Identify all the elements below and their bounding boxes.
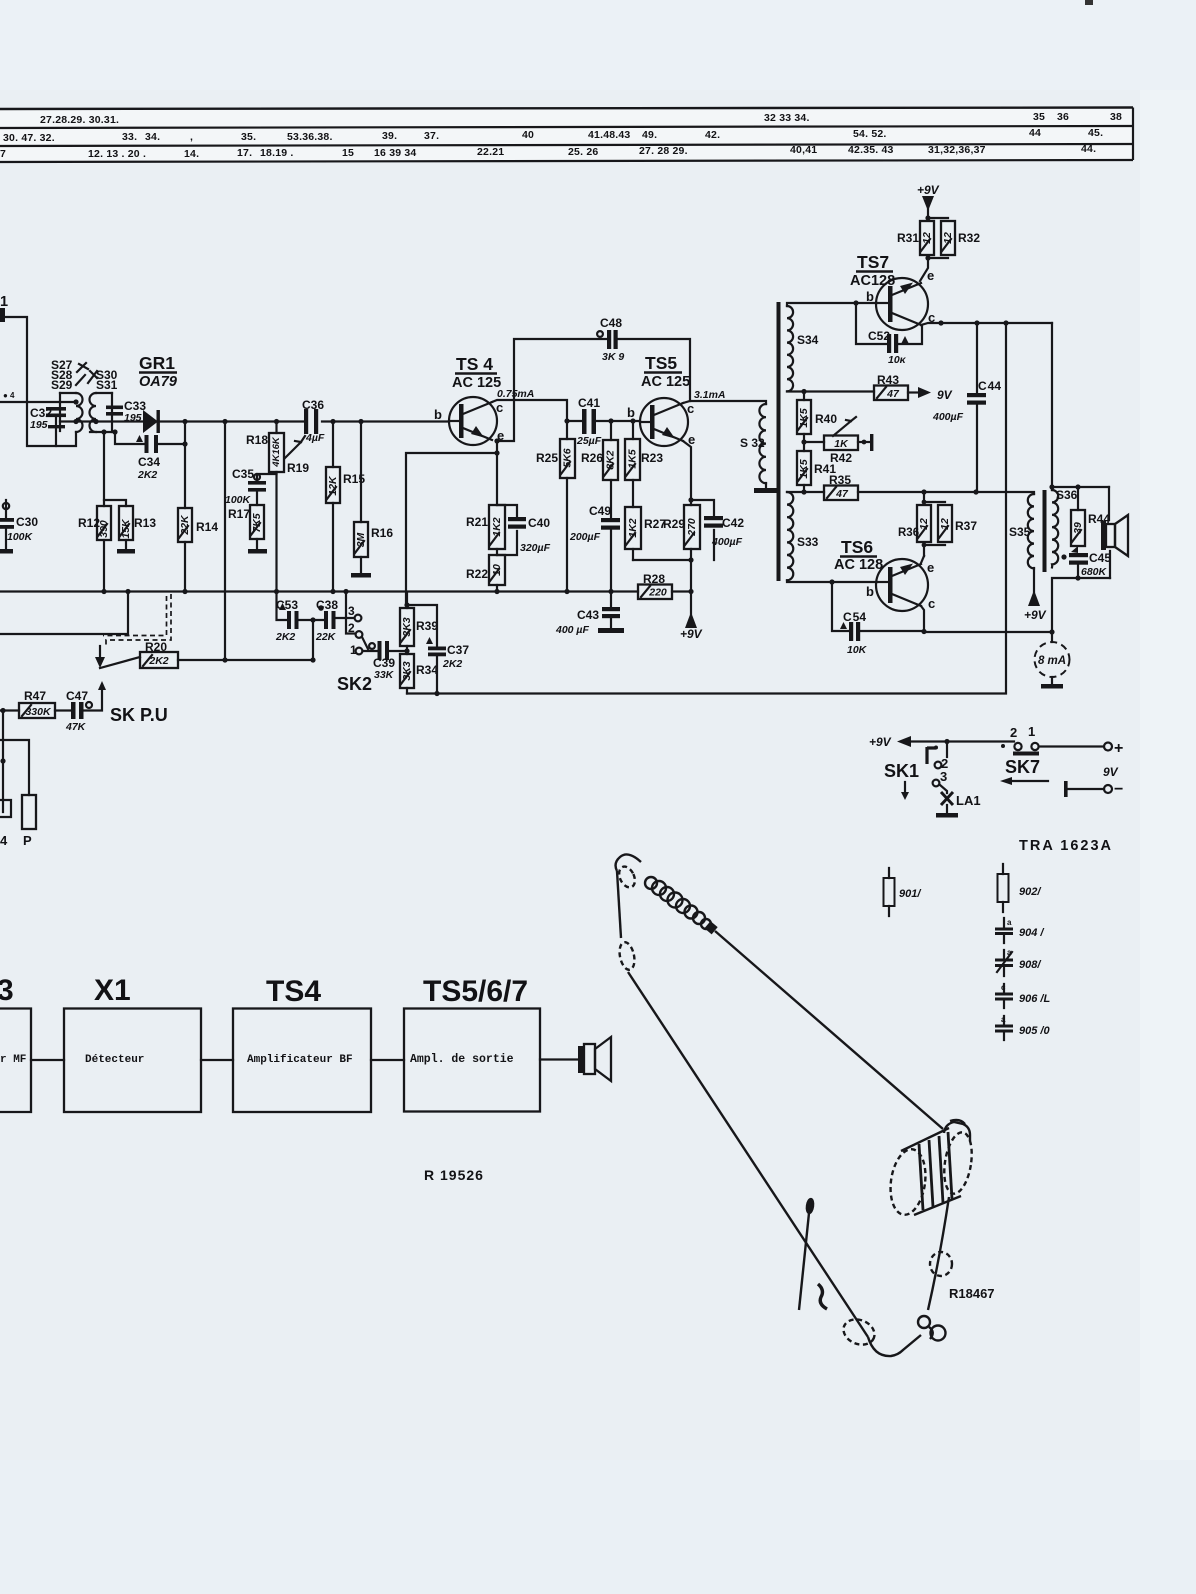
svg-text:3.1mA: 3.1mA <box>694 389 726 401</box>
capacitor C35 <box>257 474 277 480</box>
svg-text:220: 220 <box>648 587 667 599</box>
svg-text:+9V: +9V <box>680 627 703 641</box>
svg-text:7K5: 7K5 <box>251 513 263 532</box>
bottom corner pulley <box>840 1315 879 1349</box>
capacitor C30 <box>5 500 7 518</box>
legend resistor 902 <box>1002 864 1004 912</box>
wire C48 feedback loop <box>497 339 690 441</box>
switch SK2 contacts <box>336 617 354 619</box>
svg-text:C34: C34 <box>138 455 160 469</box>
resistor R21 <box>496 453 498 505</box>
svg-text:R12: R12 <box>78 516 100 530</box>
svg-text:12. 13 . 20 .: 12. 13 . 20 . <box>88 148 146 160</box>
svg-text:4: 4 <box>0 833 8 848</box>
svg-text:R34: R34 <box>416 663 438 677</box>
resistor R23 <box>632 421 634 439</box>
svg-text:R21: R21 <box>466 515 488 529</box>
wire S34 bottom to R43 <box>787 390 874 392</box>
legend capacitor 906/L <box>1003 984 1005 1008</box>
transistor TS6 <box>866 559 935 611</box>
svg-text:400 µF: 400 µF <box>555 624 589 636</box>
svg-text:C47: C47 <box>66 689 88 703</box>
switch marks S28/S29 arrows <box>76 363 88 385</box>
svg-text:1K5: 1K5 <box>798 408 810 427</box>
svg-text:R18: R18 <box>246 433 268 447</box>
svg-text:SK7: SK7 <box>1005 757 1040 777</box>
svg-text:r MF: r MF <box>0 1054 26 1066</box>
wire block links <box>31 1058 578 1061</box>
ground under R13 <box>125 540 127 549</box>
svg-text:3K 9: 3K 9 <box>602 351 624 363</box>
table row 2 numbers <box>3 127 1103 144</box>
wire main supply bus <box>0 590 638 592</box>
tuning drum <box>887 1147 930 1217</box>
svg-text:400µF: 400µF <box>711 536 743 548</box>
svg-text:330K: 330K <box>25 706 52 718</box>
transformer S32 primary coil <box>759 404 766 483</box>
svg-text:31,32,36,37: 31,32,36,37 <box>928 144 986 156</box>
wire C47 up to SK arrow <box>83 689 102 711</box>
svg-text:AC 125: AC 125 <box>641 374 690 390</box>
svg-text:R18467: R18467 <box>949 1286 995 1301</box>
svg-text:901/: 901/ <box>899 888 922 900</box>
resistor R26 <box>610 421 612 440</box>
speaker <box>1109 487 1110 578</box>
svg-text:Ampl. de sortie: Ampl. de sortie <box>410 1053 514 1066</box>
transformer S33 winding <box>787 492 793 580</box>
svg-text:22.21: 22.21 <box>477 146 504 158</box>
capacitor C49 <box>610 480 612 518</box>
transistor TS5 <box>627 398 695 447</box>
ground under meter <box>1051 677 1053 684</box>
svg-text:AC128: AC128 <box>850 273 895 289</box>
svg-text:S34: S34 <box>797 333 819 347</box>
svg-text:1K5: 1K5 <box>798 459 810 478</box>
capacitor C40 <box>497 505 517 555</box>
svg-text:a: a <box>1007 918 1012 927</box>
svg-text:34.: 34. <box>145 131 160 143</box>
svg-text:40,41: 40,41 <box>790 144 817 156</box>
resistor R44 <box>1077 487 1079 510</box>
svg-text:40: 40 <box>522 129 534 141</box>
coil S30/S31 (IF secondary) <box>90 393 112 432</box>
svg-text:S33: S33 <box>797 535 819 549</box>
lamp LA1 <box>940 785 947 793</box>
resistor R13 <box>104 500 126 506</box>
junction dots on audio line <box>222 419 227 424</box>
svg-text:4K16K: 4K16K <box>271 436 282 468</box>
ground under R16 <box>360 557 362 573</box>
svg-text:C39: C39 <box>373 656 395 670</box>
svg-text:10K: 10K <box>847 644 868 656</box>
svg-text:14.: 14. <box>184 148 199 160</box>
capacitor C39 <box>363 650 378 652</box>
svg-text:Amplificateur BF: Amplificateur BF <box>247 1054 353 1066</box>
svg-text:33K: 33K <box>374 669 395 681</box>
svg-text:680K: 680K <box>1081 566 1108 578</box>
coil S27/S28/S29 (IF primary) <box>60 393 83 432</box>
svg-text:TS5: TS5 <box>645 353 677 373</box>
svg-text:TS 4: TS 4 <box>456 354 493 374</box>
resistor R34 <box>400 654 414 688</box>
resistor R16 <box>360 422 362 523</box>
svg-text:30. 47. 32.: 30. 47. 32. <box>3 132 55 144</box>
svg-text:22K: 22K <box>179 514 191 536</box>
legend capacitor 905/0 <box>1003 1016 1005 1040</box>
resistor R31 <box>927 218 948 258</box>
wire detector output (main audio line) <box>185 420 449 422</box>
svg-text:10κ: 10κ <box>888 354 907 366</box>
wire TS4 emitter feedback to R39 <box>406 441 497 605</box>
wire volume feed down to R20 <box>224 422 226 661</box>
svg-text:47: 47 <box>835 488 849 500</box>
svg-text:27. 28 29.: 27. 28 29. <box>639 145 688 157</box>
resistor R22 <box>496 549 498 555</box>
svg-text:12: 12 <box>918 518 930 530</box>
svg-text:AC 125: AC 125 <box>452 375 501 391</box>
svg-text:AC 128: AC 128 <box>834 557 883 573</box>
resistor R14 <box>184 444 186 508</box>
svg-text:R19: R19 <box>287 461 309 475</box>
svg-text:2: 2 <box>348 621 355 635</box>
svg-text:1K: 1K <box>834 438 849 450</box>
svg-text:17.: 17. <box>237 147 252 159</box>
capacitor C33 <box>106 406 123 416</box>
wire S34 top to TS7 base <box>787 303 877 306</box>
capacitor C52 <box>856 303 922 344</box>
pointer needle <box>806 1199 814 1214</box>
wire TS7 collector line <box>921 323 1052 325</box>
svg-text:TS7: TS7 <box>857 252 889 272</box>
legend resistor 901 <box>888 868 890 916</box>
wire S36 bottom <box>1052 578 1110 632</box>
svg-text:905 /0: 905 /0 <box>1019 1025 1050 1037</box>
svg-text:C37: C37 <box>447 643 469 657</box>
svg-text:R16: R16 <box>371 526 393 540</box>
capacitor C37 <box>407 605 437 694</box>
potentiometer R42 <box>804 441 824 443</box>
svg-text:C45: C45 <box>1089 551 1111 565</box>
svg-text:e: e <box>927 268 934 283</box>
svg-text:TRA 1623A: TRA 1623A <box>1019 838 1113 854</box>
cord end hooks <box>918 1316 930 1328</box>
svg-text:R26: R26 <box>581 451 603 465</box>
svg-text:3K3: 3K3 <box>401 661 413 680</box>
svg-text:R31: R31 <box>897 231 919 245</box>
svg-text:GR1: GR1 <box>139 353 175 373</box>
svg-text:36: 36 <box>1057 111 1069 123</box>
svg-text:2K2: 2K2 <box>148 655 168 667</box>
svg-text:7: 7 <box>0 148 6 160</box>
capacitor C38 <box>318 605 324 611</box>
transformer S36 winding <box>1052 490 1058 567</box>
svg-text:X1: X1 <box>94 974 131 1007</box>
svg-text:C32: C32 <box>30 406 52 420</box>
cord run post to bottom corner <box>628 972 868 1337</box>
transformer core (output) <box>1043 490 1047 572</box>
svg-text:C38: C38 <box>316 598 338 612</box>
svg-text:R17: R17 <box>228 507 250 521</box>
wire coupling line between coils <box>60 420 96 422</box>
svg-text:C43: C43 <box>577 608 599 622</box>
wire TS7 collector to S36 top <box>1051 323 1053 487</box>
block diagram: partial MF block <box>0 1009 31 1113</box>
battery minus terminal <box>1064 781 1068 797</box>
svg-text:400µF: 400µF <box>932 411 964 423</box>
svg-text:C33: C33 <box>124 399 146 413</box>
capacitor C42 <box>704 516 723 520</box>
svg-text:b: b <box>434 407 442 422</box>
svg-text:3: 3 <box>0 974 14 1007</box>
cord tension spring <box>645 877 657 889</box>
resistor R12 <box>103 432 105 506</box>
svg-text:1K5: 1K5 <box>626 449 638 468</box>
svg-text:12: 12 <box>939 518 951 530</box>
svg-text:C 54: C 54 <box>843 610 866 624</box>
svg-text:35: 35 <box>1033 111 1045 123</box>
svg-text:4µF: 4µF <box>305 432 325 444</box>
svg-text:R13: R13 <box>134 516 156 530</box>
block TS4 amplificateur BF <box>233 1009 371 1113</box>
svg-text:SK P.U: SK P.U <box>110 705 168 725</box>
svg-text:TS6: TS6 <box>841 537 873 557</box>
svg-text:R47: R47 <box>24 689 46 703</box>
svg-text:C53: C53 <box>276 598 298 612</box>
svg-text:42.: 42. <box>705 129 720 141</box>
svg-text:a: a <box>1001 1015 1006 1024</box>
switch SK (P.U. selector) <box>99 646 101 658</box>
svg-text:−: − <box>1114 781 1123 798</box>
svg-text:C41: C41 <box>578 396 600 410</box>
wire TS6 collector line <box>921 606 924 632</box>
resistor R17 <box>256 491 258 505</box>
capacitor C54 <box>832 582 1052 632</box>
svg-text:44: 44 <box>1029 127 1041 139</box>
svg-text:SK1: SK1 <box>884 761 919 781</box>
wire R31/R32 to TS7 emitter <box>920 258 928 281</box>
svg-text:b: b <box>866 584 874 599</box>
svg-text:8K2: 8K2 <box>604 450 616 469</box>
svg-text:S 32: S 32 <box>740 436 765 450</box>
diode GR1 <box>96 420 143 422</box>
svg-text:R22: R22 <box>466 567 488 581</box>
svg-text:+9V: +9V <box>917 183 940 197</box>
resistor R27 <box>632 480 634 507</box>
svg-text:15: 15 <box>342 147 354 159</box>
svg-text:9V: 9V <box>1103 765 1119 779</box>
svg-text:906 /L: 906 /L <box>1019 993 1050 1005</box>
svg-text:42.35. 43: 42.35. 43 <box>848 144 894 156</box>
svg-text:2K2: 2K2 <box>137 469 157 481</box>
svg-text:R32: R32 <box>958 231 980 245</box>
svg-text:R 19526: R 19526 <box>424 1167 484 1183</box>
svg-text:b: b <box>627 405 635 420</box>
svg-text:S36: S36 <box>1056 488 1078 502</box>
chassis left edge and hole <box>617 871 621 938</box>
svg-text:0.75mA: 0.75mA <box>497 388 534 400</box>
svg-text:1K2: 1K2 <box>627 518 639 537</box>
svg-text:R39: R39 <box>416 619 438 633</box>
legend capacitor 908 <box>1003 950 1005 976</box>
svg-text:200µF: 200µF <box>569 531 601 543</box>
capacitor C34 <box>115 422 185 445</box>
svg-text:TS5/6/7: TS5/6/7 <box>423 975 528 1008</box>
table row 3 numbers <box>0 143 1096 160</box>
block X1 detecteur <box>64 1009 201 1113</box>
svg-text:35.: 35. <box>241 131 256 143</box>
capacitor C44 <box>976 323 978 393</box>
svg-text:2K2: 2K2 <box>442 658 462 670</box>
svg-text:5K6: 5K6 <box>561 448 573 467</box>
svg-text:270: 270 <box>686 518 698 537</box>
table row 1 numbers <box>40 111 1122 126</box>
wire return line right <box>1005 323 1007 694</box>
resistor R40 <box>803 392 805 401</box>
svg-text:Détecteur: Détecteur <box>85 1054 144 1066</box>
svg-text:908/: 908/ <box>1019 959 1042 971</box>
wire coil bottoms <box>90 431 115 433</box>
svg-text:320µF: 320µF <box>520 542 551 554</box>
svg-text:27.28.29. 30.31.: 27.28.29. 30.31. <box>40 114 119 126</box>
power +9V arrow at bus <box>685 612 697 628</box>
svg-text:C30: C30 <box>16 515 38 529</box>
svg-text:b: b <box>866 289 874 304</box>
svg-text:LA1: LA1 <box>956 793 981 808</box>
resistor R32 <box>941 221 955 255</box>
svg-text:P: P <box>23 833 32 848</box>
terminal block left edge <box>0 800 11 817</box>
svg-text:16 39 34: 16 39 34 <box>374 147 416 159</box>
svg-text:S35: S35 <box>1009 525 1031 539</box>
svg-text:OA79: OA79 <box>139 374 177 390</box>
svg-text:TS4: TS4 <box>266 975 321 1008</box>
svg-text:25. 26: 25. 26 <box>568 146 598 158</box>
svg-text:+9V: +9V <box>1024 608 1047 622</box>
wire bottom return rail <box>407 692 1004 694</box>
svg-text:c: c <box>928 596 935 611</box>
svg-text:3: 3 <box>940 769 947 784</box>
resistor P <box>22 795 36 829</box>
transformer core (driver) <box>777 302 781 581</box>
capacitor C32 <box>46 407 66 446</box>
wire bottom-left vertical <box>2 711 4 813</box>
svg-text:R40: R40 <box>815 412 837 426</box>
ground under R17 <box>256 539 258 549</box>
wire to P resistor <box>0 740 29 795</box>
capacitor C45 <box>1061 554 1066 559</box>
svg-text:SK2: SK2 <box>337 674 372 694</box>
svg-text:8 mA: 8 mA <box>1038 655 1066 667</box>
capacitor C53 <box>277 592 288 621</box>
svg-text:R29: R29 <box>663 517 685 531</box>
power +9V under S35 <box>1033 568 1035 592</box>
svg-text:53.36.38.: 53.36.38. <box>287 131 333 143</box>
svg-text:C48: C48 <box>600 316 622 330</box>
drum clip <box>944 1122 970 1141</box>
wire S33 bottom to TS6 base <box>787 581 877 583</box>
svg-text:45.: 45. <box>1088 127 1103 139</box>
svg-text:C35: C35 <box>232 467 254 481</box>
wire TS5 emitter chain <box>633 441 714 592</box>
svg-text:100K: 100K <box>225 494 252 506</box>
svg-text:10: 10 <box>491 564 503 576</box>
svg-text:44.: 44. <box>1081 143 1096 155</box>
svg-text:39.: 39. <box>382 130 397 142</box>
svg-text:12: 12 <box>921 232 933 244</box>
svg-text:3M: 3M <box>355 532 367 547</box>
svg-text:R36: R36 <box>898 527 919 539</box>
wire R35 to S35 <box>858 492 1034 494</box>
wire TS4 collector to C41 <box>492 400 581 421</box>
svg-text:c: c <box>687 401 694 416</box>
svg-text:R37: R37 <box>955 519 977 533</box>
svg-text:902/: 902/ <box>1019 886 1042 898</box>
svg-text:1: 1 <box>0 294 8 310</box>
svg-text:37.: 37. <box>424 130 439 142</box>
parts-location table <box>0 108 1133 163</box>
meter 8mA <box>1051 632 1053 642</box>
svg-text:C40: C40 <box>528 516 550 530</box>
svg-text:c: c <box>1001 983 1006 992</box>
ground under S32 <box>765 483 767 488</box>
switch SK1 <box>946 742 948 758</box>
resistor R15 <box>332 422 334 468</box>
transistor TS7 <box>866 268 935 330</box>
svg-text:15K: 15K <box>120 518 132 539</box>
svg-text:12: 12 <box>942 232 954 244</box>
svg-text:C49: C49 <box>589 504 611 518</box>
resistor R39 <box>406 592 408 608</box>
svg-text:18.19 .: 18.19 . <box>260 147 294 159</box>
svg-text:e: e <box>927 560 934 575</box>
svg-text:904 /: 904 / <box>1019 927 1045 939</box>
svg-text:R14: R14 <box>196 520 218 534</box>
label S27 S28 S29 <box>51 358 118 392</box>
legend capacitor 904 <box>1003 918 1005 943</box>
svg-text:1K2: 1K2 <box>491 517 503 536</box>
svg-text:1: 1 <box>1028 724 1035 739</box>
wire S36 top to R44 and speaker <box>1052 487 1109 490</box>
svg-text:54. 52.: 54. 52. <box>853 128 887 140</box>
resistor R18 with pot R19 <box>275 422 277 434</box>
output transformer S35 winding <box>1028 494 1034 568</box>
wire top-left to loop corner <box>0 317 76 446</box>
svg-text:25µF: 25µF <box>576 435 602 447</box>
svg-text:S29: S29 <box>51 378 73 392</box>
svg-text:33.: 33. <box>122 131 137 143</box>
svg-text:2K2: 2K2 <box>275 631 295 643</box>
wire IF input line <box>0 401 76 403</box>
svg-text:a: a <box>1007 948 1012 957</box>
svg-text:100K: 100K <box>7 531 34 543</box>
resistor R29 <box>684 505 700 549</box>
wire lower-left stub <box>0 592 128 635</box>
svg-text:38: 38 <box>1110 111 1122 123</box>
cord run spring to drum <box>715 931 943 1129</box>
cord drum to hooks <box>928 1197 949 1310</box>
block TS5/6/7 ampl de sortie <box>404 1009 540 1112</box>
svg-text:C42: C42 <box>722 516 744 530</box>
svg-text:9V: 9V <box>937 388 953 402</box>
svg-text:S31: S31 <box>96 378 118 392</box>
svg-text:195: 195 <box>30 419 48 431</box>
svg-text:c: c <box>496 400 503 415</box>
svg-text:+: + <box>1114 740 1123 757</box>
svg-text:49.: 49. <box>642 129 657 141</box>
svg-text:C52: C52 <box>868 329 890 343</box>
transformer S34 winding <box>787 306 793 391</box>
resistor R25 <box>566 421 568 439</box>
